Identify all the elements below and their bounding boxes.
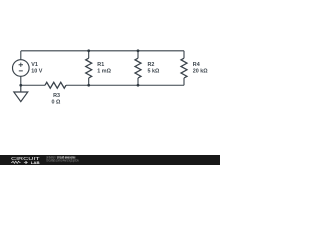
resistor R4 — [181, 58, 187, 78]
wire R2 top lead — [137, 51, 139, 58]
wire V1 top lead — [20, 51, 22, 60]
wire R1 bottom lead — [88, 78, 90, 85]
node R2 top junction — [137, 49, 140, 52]
logo capacitor — [24, 161, 28, 164]
resistor R3 — [45, 82, 66, 88]
wire R4 top lead — [183, 51, 185, 58]
voltage source V1 — [12, 60, 29, 77]
resistor R1 — [86, 58, 92, 78]
node V1 bottom junction — [19, 84, 22, 87]
wire R1 top lead — [88, 51, 90, 58]
svg-text:5 kΩ: 5 kΩ — [148, 69, 160, 75]
svg-text:R1: R1 — [97, 62, 104, 68]
credit line 1 — [46, 155, 79, 162]
watermark bar — [0, 155, 220, 165]
wire R3 left lead — [21, 84, 45, 86]
wire V1 bottom lead — [20, 76, 22, 85]
wire R4 bottom lead — [183, 78, 185, 85]
svg-text:V1: V1 — [31, 62, 38, 68]
svg-text:R2: R2 — [148, 62, 155, 68]
logo resistor zigzag — [11, 161, 28, 164]
svg-text:1 mΩ: 1 mΩ — [97, 69, 111, 75]
wire bottom rail — [66, 84, 184, 86]
svg-text:10 V: 10 V — [31, 69, 42, 75]
svg-text:R4: R4 — [193, 62, 200, 68]
ground — [14, 85, 28, 101]
resistor R2 — [135, 58, 141, 78]
svg-text:R3: R3 — [53, 93, 60, 99]
node R2 bottom junction — [137, 84, 140, 87]
CircuitLab logo — [11, 156, 40, 165]
svg-text:0 Ω: 0 Ω — [51, 100, 60, 106]
svg-text:20 kΩ: 20 kΩ — [193, 69, 208, 75]
svg-text:circuitlab.com/c/4wm2rq3qzdcw: circuitlab.com/c/4wm2rq3qzdcw — [46, 158, 79, 162]
wire top rail — [21, 50, 184, 52]
svg-text:LAB: LAB — [31, 160, 40, 165]
node R1 bottom junction — [87, 84, 90, 87]
wire R2 bottom lead — [137, 78, 139, 85]
node R1 top junction — [87, 49, 90, 52]
